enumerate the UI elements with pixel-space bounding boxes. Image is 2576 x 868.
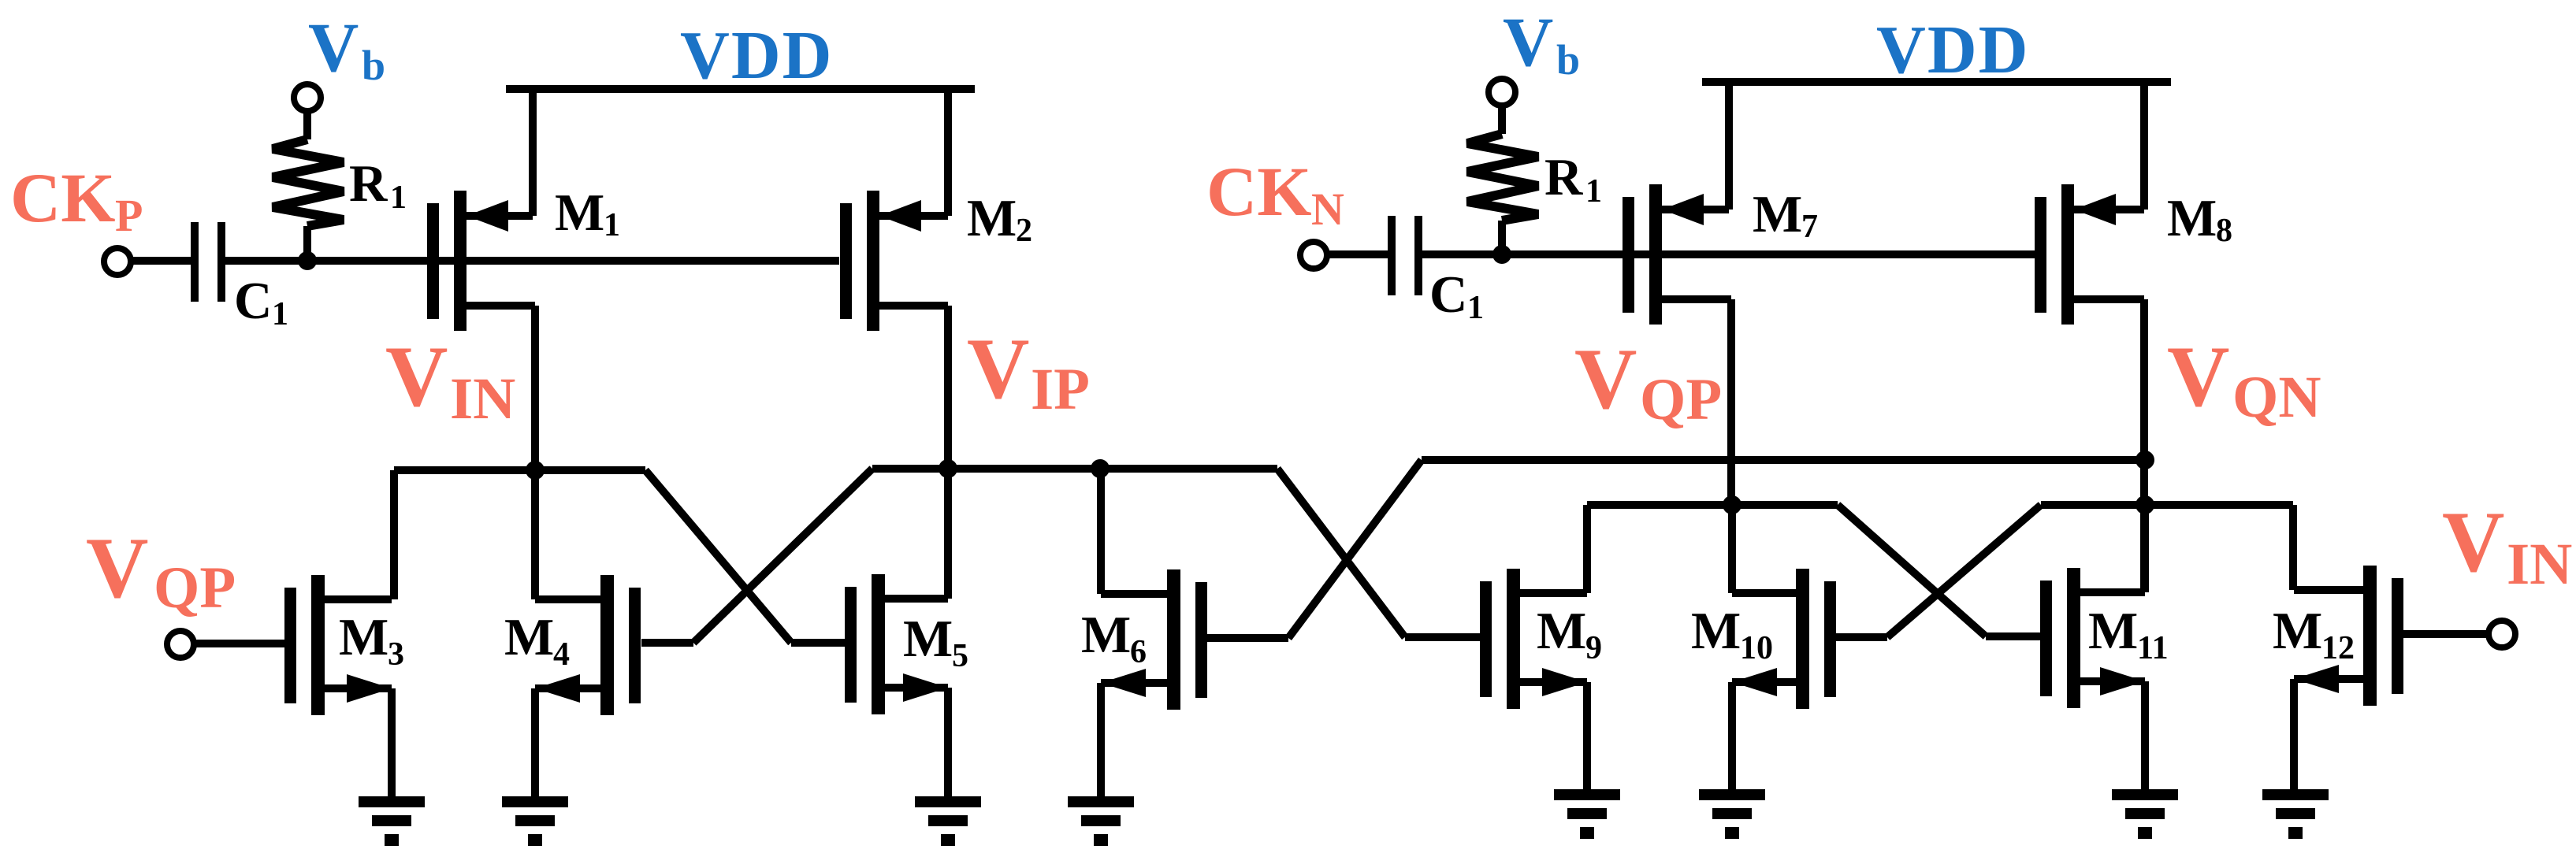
svg-text:M: M [1081, 606, 1131, 664]
svg-text:M: M [2167, 189, 2217, 247]
node VIP junction dot [939, 459, 957, 478]
label M11 [2088, 602, 2169, 666]
node VIP second junction dot (M6 drain tap) [1091, 459, 1110, 478]
svg-text:R: R [349, 154, 388, 213]
svg-text:2: 2 [1016, 213, 1032, 249]
transistor M3 [284, 575, 392, 796]
wire CKN to C1 [1327, 250, 1388, 258]
svg-text:V: V [967, 321, 1029, 417]
svg-text:QP: QP [154, 555, 236, 621]
svg-text:V: V [308, 9, 359, 87]
svg-text:M: M [903, 610, 953, 668]
ground (M5) [915, 796, 981, 846]
label M9 [1537, 602, 1602, 666]
svg-text:M: M [1537, 602, 1586, 660]
label M6 [1081, 606, 1147, 670]
node A junction dot (R1/C1/gate, left) [298, 251, 317, 270]
label VDD (left) [680, 17, 834, 93]
label M1 [555, 184, 620, 243]
svg-text:M: M [2273, 602, 2322, 660]
node B junction dot (R1/C1/gate, right) [1492, 245, 1511, 264]
label VIN (right) [2442, 494, 2572, 597]
ground (M12) [2262, 789, 2329, 839]
label VDD (right) [1876, 11, 2030, 87]
transistor M11 [2040, 505, 2145, 789]
ground (M6) [1068, 796, 1134, 846]
wire M6 gate to VQN (diagonal + bus) [1207, 460, 2145, 638]
wire M12 gate to output terminal [2403, 630, 2489, 638]
ground (M10) [1699, 789, 1765, 839]
svg-text:C: C [234, 272, 272, 330]
transistor M8 [2035, 82, 2144, 589]
wire VQP terminal to M3 gate [194, 640, 284, 647]
output terminal VIN (right) [2489, 621, 2515, 647]
svg-text:M: M [2088, 602, 2138, 660]
label M2 [967, 189, 1032, 249]
input terminal CKN [1300, 242, 1327, 269]
node VIP wire [872, 465, 1277, 473]
svg-text:IN: IN [450, 366, 515, 432]
label M10 [1691, 602, 1773, 666]
svg-text:V: V [1503, 4, 1553, 81]
svg-text:b: b [362, 42, 385, 89]
power terminal Vb (right) [1489, 79, 1515, 134]
svg-text:M: M [1691, 602, 1741, 660]
ground (M4) [502, 796, 568, 846]
ground (M9) [1554, 789, 1620, 839]
svg-text:3: 3 [388, 636, 404, 673]
resistor R1 (right) [1467, 134, 1538, 254]
svg-text:1: 1 [1585, 173, 1602, 210]
input terminal VQP (left) [167, 631, 194, 658]
label C1 (left) [234, 272, 288, 332]
svg-text:M: M [1753, 185, 1802, 243]
node VQP wire [1587, 501, 1838, 509]
node VIN wire [394, 466, 645, 474]
wire CKP to C1 [131, 257, 191, 265]
svg-text:10: 10 [1740, 630, 1773, 666]
wire cross-couple VQP to M11 gate [1838, 505, 2040, 636]
wire gate bus left (C1 to M2 gate) [225, 257, 839, 265]
svg-text:CK: CK [1206, 154, 1312, 231]
svg-text:V: V [2442, 494, 2504, 590]
svg-text:11: 11 [2137, 630, 2169, 666]
label M7 [1753, 185, 1818, 245]
label M4 [504, 608, 570, 673]
wire VIP to M9 gate (diagonal) [1277, 469, 1481, 637]
svg-text:IN: IN [2507, 532, 2572, 597]
svg-text:4: 4 [553, 636, 570, 673]
transistor M1 [427, 89, 535, 470]
svg-text:M: M [967, 189, 1017, 247]
transistor M12 [2294, 566, 2403, 789]
wire VQP down to M10 drain [1728, 505, 1736, 593]
svg-text:N: N [1311, 184, 1344, 235]
VDD rail (left) [506, 85, 975, 93]
input terminal CKP [104, 248, 131, 275]
svg-text:M: M [555, 184, 604, 242]
label CKN [1206, 154, 1344, 235]
svg-text:1: 1 [1467, 290, 1484, 326]
transistor M10 [1732, 569, 1836, 789]
ground (M11) [2112, 789, 2178, 839]
svg-text:V: V [1574, 331, 1637, 427]
capacitor C1 (left) [191, 222, 225, 302]
wire gate bus right (C1 to M8 gate) [1422, 250, 2035, 258]
label VQP (bottom left) [86, 520, 236, 621]
transistor M4 [535, 575, 641, 796]
transistor M2 [840, 89, 948, 469]
svg-text:M: M [339, 608, 388, 666]
transistor M6 [1101, 469, 1207, 796]
svg-text:VDD: VDD [680, 17, 834, 93]
label M12 [2273, 602, 2355, 666]
svg-text:V: V [2167, 328, 2229, 425]
svg-text:1: 1 [272, 296, 288, 332]
wire cross-couple VIP to M4 gate [641, 469, 872, 643]
label M5 [903, 610, 968, 674]
VDD rail (right) [1702, 78, 2171, 86]
svg-text:9: 9 [1585, 630, 1602, 666]
svg-text:7: 7 [1801, 209, 1818, 245]
label VIP [967, 321, 1090, 422]
node VQN upper junction dot [2136, 451, 2154, 469]
label M8 [2167, 189, 2232, 249]
svg-text:V: V [385, 328, 448, 425]
label Vb (left) [308, 9, 385, 89]
wire VIN to M3 drain (corner) [390, 470, 398, 599]
node VQP junction dot [1723, 495, 1741, 514]
node VQN junction dot [2136, 495, 2154, 514]
svg-text:5: 5 [952, 638, 968, 674]
wire cross-couple VIN to M5 gate [645, 470, 845, 643]
svg-text:b: b [1556, 36, 1580, 83]
svg-text:V: V [86, 520, 148, 616]
node VIN junction dot [526, 461, 545, 480]
label R1 (left) [349, 154, 407, 216]
resistor R1 (left) [273, 139, 344, 261]
label C1 (right) [1429, 265, 1484, 326]
label VIN (left) [385, 328, 515, 432]
transistor M5 [845, 469, 948, 796]
label CKP [10, 160, 143, 241]
svg-text:P: P [115, 190, 143, 241]
label VQN [2167, 328, 2321, 430]
label VQP (top) [1574, 331, 1722, 432]
wire VIN down to M4 drain [531, 470, 539, 599]
power terminal Vb (left) [294, 84, 321, 139]
svg-text:6: 6 [1130, 634, 1147, 670]
svg-text:QN: QN [2232, 365, 2321, 430]
label Vb (right) [1503, 4, 1580, 83]
svg-text:M: M [504, 608, 554, 666]
svg-text:1: 1 [390, 180, 407, 216]
wire VQN to M12 drain [2145, 505, 2293, 590]
capacitor C1 (right) [1388, 216, 1422, 295]
ground (M3) [359, 796, 425, 846]
transistor M7 [1623, 82, 1731, 505]
svg-text:CK: CK [10, 160, 116, 237]
svg-text:8: 8 [2216, 213, 2232, 249]
svg-text:QP: QP [1640, 367, 1722, 432]
wire cross-couple M10 gate to VQN [1836, 505, 2145, 637]
svg-text:C: C [1429, 265, 1467, 324]
svg-text:IP: IP [1031, 357, 1090, 422]
svg-text:1: 1 [604, 207, 620, 243]
label R1 (right) [1544, 148, 1602, 210]
svg-text:R: R [1544, 148, 1583, 206]
svg-text:VDD: VDD [1876, 11, 2030, 87]
label M3 [339, 608, 404, 673]
svg-text:12: 12 [2321, 630, 2355, 666]
transistor M9 [1480, 505, 1587, 789]
